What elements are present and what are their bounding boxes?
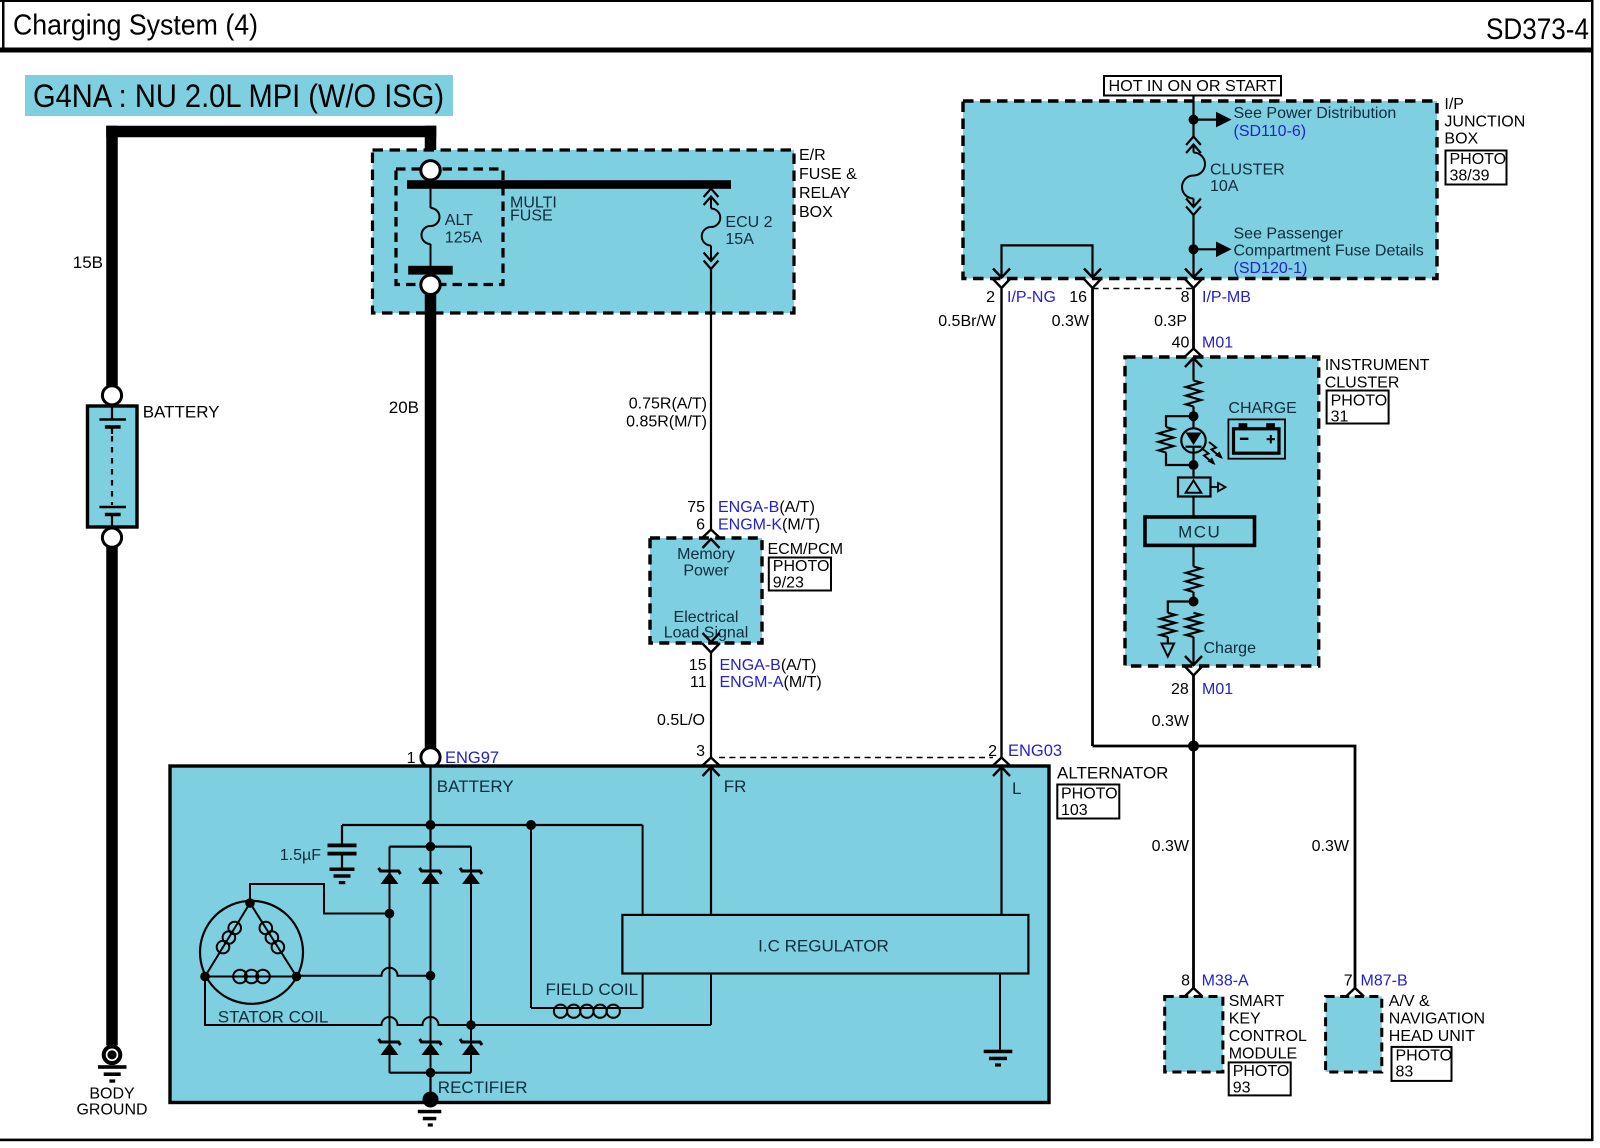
label I/P JUNCTION BOX	[1444, 96, 1525, 148]
node B+ field	[526, 820, 536, 830]
svg-text:10A: 10A	[1210, 178, 1239, 195]
svg-text:INSTRUMENT: INSTRUMENT	[1325, 357, 1430, 374]
svg-text:PHOTO: PHOTO	[1450, 151, 1507, 168]
svg-text:FIELD COIL: FIELD COIL	[546, 980, 639, 999]
label ECU 2 15A	[725, 214, 772, 248]
svg-text:ENG03: ENG03	[1008, 742, 1062, 760]
svg-text:75: 75	[687, 499, 705, 516]
svg-text:7: 7	[1344, 973, 1353, 990]
label pin 3	[696, 743, 705, 760]
svg-text:38/39: 38/39	[1450, 168, 1490, 185]
svg-text:BOX: BOX	[1444, 131, 1478, 148]
svg-text:PHOTO: PHOTO	[1331, 393, 1388, 410]
svg-text:I.C REGULATOR: I.C REGULATOR	[758, 937, 889, 956]
page header title	[13, 10, 258, 42]
label Charge	[1204, 640, 1257, 657]
junction node M01/M38/M87	[1188, 741, 1199, 752]
I.C regulator	[622, 915, 1028, 974]
svg-text:KEY: KEY	[1229, 1011, 1261, 1028]
svg-text:RELAY: RELAY	[799, 185, 851, 202]
svg-text:A/V &: A/V &	[1389, 993, 1430, 1010]
instrument cluster box	[1125, 357, 1319, 666]
svg-text:83: 83	[1396, 1064, 1414, 1081]
svg-text:JUNCTION: JUNCTION	[1444, 114, 1525, 131]
wire FR through regulator	[710, 767, 712, 1025]
svg-text:ECU 2: ECU 2	[725, 214, 772, 231]
wire I/P-NG pin2 to ENG03	[1000, 289, 1002, 758]
label 1.5uF	[280, 847, 321, 864]
label 0.75R(A/T) 0.85R(M/T)	[626, 396, 707, 431]
label 28 M01	[1171, 681, 1233, 698]
alternator box	[170, 766, 1049, 1103]
svg-text:0.3P: 0.3P	[1154, 313, 1187, 330]
rectifier bridge	[390, 825, 472, 1077]
svg-text:(SD110-6): (SD110-6)	[1234, 123, 1307, 140]
svg-text:CHARGE: CHARGE	[1228, 400, 1296, 417]
svg-text:Power: Power	[683, 563, 729, 580]
svg-text:CLUSTER: CLUSTER	[1325, 375, 1400, 392]
page code SD373-4	[1486, 13, 1589, 46]
MCU block	[1145, 497, 1255, 546]
svg-text:0.75R(A/T): 0.75R(A/T)	[629, 396, 707, 413]
connector entry ECM top	[702, 530, 720, 549]
wire cluster to junction node	[1192, 676, 1195, 747]
wire battery feed horizontal top	[106, 126, 436, 138]
wire B+ bus to regulator	[642, 825, 644, 915]
node see-passenger	[1189, 242, 1232, 258]
svg-text:0.3W: 0.3W	[1052, 313, 1090, 330]
svg-text:FUSE: FUSE	[510, 208, 553, 225]
engine variant label G4NA	[25, 75, 453, 116]
label Electrical Load Signal	[664, 609, 749, 642]
svg-text:STATOR COIL: STATOR COIL	[218, 1008, 329, 1027]
svg-text:CONTROL: CONTROL	[1229, 1028, 1307, 1045]
svg-text:ENGM-K(M/T): ENGM-K(M/T)	[718, 517, 820, 534]
svg-text:PHOTO: PHOTO	[773, 558, 830, 575]
label 0.5L/O	[657, 712, 705, 729]
svg-text:GROUND: GROUND	[76, 1102, 147, 1119]
svg-text:9/23: 9/23	[773, 575, 804, 592]
label 15B	[73, 253, 103, 272]
svg-text:16: 16	[1069, 289, 1087, 306]
diode bottom middle	[420, 1039, 442, 1055]
svg-text:ALT: ALT	[445, 212, 473, 229]
CHARGE telltale icon	[1228, 400, 1296, 459]
diode top middle	[420, 868, 442, 884]
connector pin 16	[1084, 269, 1102, 289]
svg-text:Memory: Memory	[677, 546, 735, 563]
connector pin 8 I/P-MB	[1185, 269, 1203, 289]
svg-text:Compartment Fuse Details: Compartment Fuse Details	[1234, 243, 1424, 260]
svg-text:BATTERY: BATTERY	[437, 777, 514, 796]
wire junction to M87-B	[1194, 746, 1356, 988]
label ALTERNATOR	[1057, 764, 1168, 783]
svg-text:ENG97: ENG97	[445, 749, 499, 767]
internal jumper pins 2-16	[1002, 245, 1093, 278]
resistor cluster top	[1186, 381, 1201, 417]
labels pins 2 16 8	[986, 289, 1251, 306]
field coil	[531, 825, 643, 1018]
LED charge warning lamp	[1181, 416, 1205, 465]
label ALT 125A	[445, 212, 483, 247]
svg-text:(SD120-1): (SD120-1)	[1234, 260, 1308, 277]
stator coil	[200, 898, 303, 1004]
svg-text:PHOTO: PHOTO	[1233, 1063, 1290, 1080]
svg-text:Electrical: Electrical	[674, 609, 739, 626]
wire stator phase W to rectifier	[205, 977, 711, 1030]
wire pin16 down to junction	[1093, 289, 1194, 747]
capacitor 1.5uF	[328, 825, 357, 884]
svg-text:ECM/PCM: ECM/PCM	[768, 541, 844, 558]
photo ref 9/23	[769, 558, 831, 592]
svg-text:0.3W: 0.3W	[1152, 713, 1190, 730]
svg-text:28: 28	[1171, 681, 1189, 698]
node below MCU	[1189, 597, 1199, 607]
label 2 ENG03	[988, 742, 1062, 760]
svg-text:0.5L/O: 0.5L/O	[657, 712, 705, 729]
label STATOR COIL	[218, 1008, 329, 1027]
svg-text:ENGM-A(M/T): ENGM-A(M/T)	[720, 674, 822, 691]
svg-text:M01: M01	[1202, 335, 1233, 352]
svg-text:15A: 15A	[725, 231, 754, 248]
I/P junction box	[963, 101, 1437, 279]
svg-text:E/R: E/R	[799, 147, 826, 164]
svg-text:0.5Br/W: 0.5Br/W	[938, 313, 997, 330]
svg-text:FR: FR	[724, 777, 747, 796]
photo ref 83	[1392, 1047, 1453, 1081]
fuse ECU 2 15A	[702, 189, 721, 270]
label E/R FUSE & RELAY BOX	[799, 147, 857, 221]
svg-text:G4NA : NU 2.0L MPI (W/O ISG): G4NA : NU 2.0L MPI (W/O ISG)	[33, 78, 444, 114]
labels 0.3W lower	[1152, 838, 1350, 855]
wire stator phase U to rectifier	[250, 884, 394, 918]
svg-text:8: 8	[1181, 973, 1190, 990]
svg-text:2: 2	[986, 289, 995, 306]
connector boundary dashes FR-ENG03	[719, 757, 993, 759]
svg-text:BATTERY: BATTERY	[143, 403, 220, 422]
label ECM/PCM	[768, 541, 844, 558]
label CLUSTER 10A	[1210, 162, 1285, 196]
svg-text:I/P-NG: I/P-NG	[1007, 289, 1056, 306]
svg-text:ENGA-B(A/T): ENGA-B(A/T)	[720, 657, 817, 674]
node see-power-distribution	[1189, 112, 1232, 128]
svg-text:11: 11	[690, 674, 707, 691]
svg-text:103: 103	[1061, 802, 1088, 819]
wire HOT to cluster fuse	[1192, 96, 1194, 136]
svg-text:PHOTO: PHOTO	[1396, 1047, 1453, 1064]
label BATTERY terminal	[437, 777, 514, 796]
connector L entry ENG03	[993, 758, 1011, 777]
resistor to internal ground	[1160, 602, 1193, 657]
diode top right	[460, 868, 482, 884]
node LED top	[1189, 411, 1199, 421]
label 20B	[389, 398, 419, 417]
connector pin 2 I/P-NG	[993, 269, 1011, 289]
svg-text:HOT IN ON OR START: HOT IN ON OR START	[1109, 78, 1277, 95]
body ground	[98, 1047, 127, 1083]
label See Passenger Compartment Fuse Details (SD120-1)	[1234, 226, 1424, 278]
label MULTI FUSE	[510, 194, 557, 224]
svg-text:15B: 15B	[73, 253, 103, 272]
svg-text:CLUSTER: CLUSTER	[1210, 162, 1285, 179]
label See Power Distribution (SD110-6)	[1234, 105, 1397, 140]
svg-text:125A: 125A	[445, 230, 483, 247]
label 40 M01	[1172, 335, 1234, 352]
svg-text:Charging System (4): Charging System (4)	[13, 10, 258, 42]
svg-text:Charge: Charge	[1204, 640, 1257, 657]
photo ref 93	[1229, 1062, 1291, 1096]
svg-text:L: L	[1012, 779, 1021, 798]
regulator ground	[984, 974, 1013, 1067]
svg-text:ALTERNATOR: ALTERNATOR	[1057, 764, 1168, 783]
connector 7 M87-B	[1344, 973, 1408, 1007]
wire battery to body ground	[106, 547, 118, 1046]
connector exit 28 M01	[1185, 656, 1203, 676]
svg-text:I/P: I/P	[1444, 96, 1464, 113]
bus bar in E/R box	[407, 180, 731, 189]
rectifier ground	[418, 1073, 442, 1127]
LED light arrows	[1202, 442, 1224, 465]
svg-text:FUSE &: FUSE &	[799, 166, 857, 183]
svg-text:6: 6	[696, 517, 705, 534]
ECM/PCM box	[650, 538, 762, 643]
node B+ rectifier	[426, 820, 436, 830]
svg-text:M01: M01	[1202, 681, 1233, 698]
label 1 ENG97	[407, 749, 500, 767]
wire pin8 to instrument cluster	[1192, 289, 1195, 349]
svg-text:M87-B: M87-B	[1361, 973, 1408, 990]
connector boundary dashes 16-8	[1093, 288, 1194, 290]
svg-text:See Power Distribution: See Power Distribution	[1234, 105, 1397, 122]
svg-text:MCU: MCU	[1178, 523, 1221, 542]
resistor charge output	[1186, 613, 1201, 665]
svg-text:2: 2	[988, 743, 997, 760]
label FIELD COIL	[546, 980, 639, 999]
wire L to regulator	[1000, 767, 1002, 915]
A/V navigation head unit box	[1326, 997, 1382, 1073]
photo ref 38/39	[1446, 151, 1507, 185]
label L terminal	[1012, 779, 1021, 798]
wire cluster top	[1192, 358, 1194, 381]
label RECTIFIER	[438, 1078, 528, 1097]
label SMART KEY CONTROL MODULE	[1229, 993, 1307, 1063]
svg-text:NAVIGATION: NAVIGATION	[1389, 1011, 1485, 1028]
svg-text:See Passenger: See Passenger	[1234, 226, 1344, 243]
connector 8 M38-A	[1181, 973, 1249, 1007]
wire internal B+ bus	[342, 824, 643, 826]
connector terminal circle top of ALT fuse	[421, 161, 440, 180]
connector FR entry	[702, 758, 720, 777]
svg-text:31: 31	[1331, 409, 1349, 426]
label FR terminal	[724, 777, 747, 796]
svg-text:1.5µF: 1.5µF	[280, 847, 321, 864]
svg-text:I/P-MB: I/P-MB	[1202, 289, 1251, 306]
wire ECU2 fuse to ECM pin 75/6	[710, 269, 712, 530]
diode bottom left	[379, 1039, 401, 1055]
svg-text:BOX: BOX	[799, 204, 833, 221]
label 0.3W (28 wire)	[1152, 713, 1190, 730]
multi fuse sub-box	[396, 169, 503, 285]
svg-text:8: 8	[1181, 289, 1190, 306]
fuse ALT 125A	[408, 189, 453, 275]
node LED bottom	[1189, 460, 1199, 470]
connector terminal circle bottom of ALT fuse	[421, 275, 440, 294]
svg-text:RECTIFIER: RECTIFIER	[438, 1078, 528, 1097]
label BODY GROUND	[76, 1086, 147, 1119]
label Memory Power	[677, 546, 735, 580]
svg-text:PHOTO: PHOTO	[1061, 786, 1118, 803]
E/R fuse and relay box	[373, 150, 795, 313]
diode top left	[379, 868, 401, 884]
svg-text:SMART: SMART	[1229, 993, 1285, 1010]
connector exit ECM bottom	[702, 633, 720, 653]
resistor parallel to LED	[1159, 416, 1194, 465]
wire 20B ALT fuse to alternator	[425, 295, 437, 749]
wire junction to M38-A	[1192, 746, 1195, 988]
svg-text:MODULE: MODULE	[1229, 1046, 1297, 1063]
pin 75 ENGA-B / 6 ENGM-K	[687, 499, 820, 534]
smart key control module box	[1165, 997, 1223, 1073]
wire battery feed left vertical 15B	[106, 126, 118, 386]
svg-text:3: 3	[696, 743, 705, 760]
photo ref 103	[1057, 785, 1119, 820]
wire B+ into alternator	[429, 767, 431, 826]
wire stator phase V to rectifier	[297, 968, 436, 981]
svg-text:BODY: BODY	[89, 1086, 135, 1103]
photo ref 31	[1327, 391, 1389, 426]
fuse CLUSTER 10A	[1182, 137, 1205, 278]
svg-text:0.3W: 0.3W	[1312, 838, 1350, 855]
labels wire colors 0.5Br/W 0.3W 0.3P	[938, 313, 1187, 330]
connector ENG97 terminal circle	[421, 748, 440, 767]
wire ECM to alternator FR	[710, 653, 712, 758]
diode bottom right	[460, 1039, 482, 1055]
label INSTRUMENT CLUSTER	[1325, 357, 1430, 392]
svg-text:ENGA-B(A/T): ENGA-B(A/T)	[718, 499, 815, 516]
svg-text:HEAD UNIT: HEAD UNIT	[1389, 1028, 1475, 1045]
connector entry 40 M01	[1185, 349, 1203, 368]
battery	[88, 386, 138, 548]
svg-text:15: 15	[689, 657, 707, 674]
wire drop into E/R fuse box	[425, 126, 437, 161]
HOT IN ON OR START tag	[1104, 76, 1281, 96]
svg-text:40: 40	[1172, 335, 1190, 352]
svg-text:93: 93	[1233, 1079, 1251, 1096]
svg-text:SD373-4: SD373-4	[1486, 13, 1589, 46]
svg-text:0.85R(M/T): 0.85R(M/T)	[626, 414, 707, 431]
svg-text:M38-A: M38-A	[1202, 973, 1249, 990]
label BATTERY (left)	[143, 403, 220, 422]
svg-text:20B: 20B	[389, 398, 419, 417]
label A/V & NAVIGATION HEAD UNIT	[1389, 993, 1485, 1045]
pin 15 ENGA-B / 11 ENGM-A	[689, 657, 822, 691]
resistor below MCU	[1186, 545, 1201, 601]
svg-text:0.3W: 0.3W	[1152, 838, 1190, 855]
svg-text:Load Signal: Load Signal	[664, 625, 749, 642]
buzzer	[1178, 465, 1226, 497]
